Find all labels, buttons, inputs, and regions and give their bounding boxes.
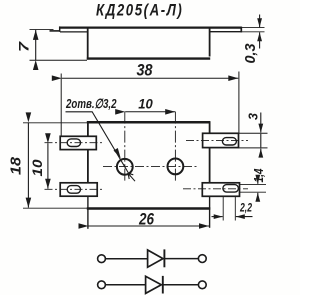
centerline hole right vertical / 10 extension xyxy=(174,112,176,183)
diode 2 wire left xyxy=(106,284,145,286)
diode 2 wire right xyxy=(163,284,199,286)
svg-text:26: 26 xyxy=(138,210,154,229)
side view: body left edge xyxy=(87,28,89,60)
centerline tab top-right xyxy=(186,139,248,141)
dimension 38 extension right xyxy=(238,72,240,134)
main view: plate bottom edge xyxy=(87,207,211,210)
dimension 1,4 upper arrow xyxy=(257,177,259,184)
dimension 2,2 extension left (slot left edge) xyxy=(222,197,224,221)
main view: plate right edge lower + 26 extension xyxy=(209,196,211,227)
dimension 10 left line xyxy=(47,143,49,189)
diode 2 right terminal circle xyxy=(198,281,206,289)
main view: plate left edge upper xyxy=(87,121,89,136)
dimension 18 extension bottom xyxy=(23,207,87,209)
side view: body bottom edge xyxy=(87,57,210,59)
diode 2 triangle anode xyxy=(146,276,162,293)
dimension 18 extension top xyxy=(23,122,87,124)
svg-text:0,3: 0,3 xyxy=(242,43,259,64)
dimension 7 top extension xyxy=(30,28,54,30)
dimension 0,3 upper arrow xyxy=(259,15,261,28)
svg-text:2отв.∅3,2: 2отв.∅3,2 xyxy=(65,96,117,111)
dimension 3 upper arrow xyxy=(260,113,262,133)
dimension 2,2 extension right (slot right edge) xyxy=(234,197,236,221)
diode 1 wire right xyxy=(164,258,198,260)
diode 1 wire left xyxy=(106,258,147,260)
side view: flange right end xyxy=(240,27,242,33)
diode 2 left terminal circle xyxy=(98,281,106,289)
dimension 3 extension top (tab top extended) xyxy=(239,132,268,134)
diode 1 right terminal circle xyxy=(198,255,206,263)
main view: plate top edge xyxy=(87,121,211,124)
slot in tab bottom-left xyxy=(67,186,80,194)
dimension 2,2 right arrow xyxy=(236,216,253,218)
centerline tab bottom-right xyxy=(183,188,248,190)
extension line 0,3 bottom xyxy=(242,31,265,33)
main view: plate left edge middle xyxy=(87,150,89,183)
side view: flange bottom left segment xyxy=(60,31,88,33)
leader end feathers xyxy=(128,173,135,181)
dimension 1,4 extension top (slot top extended) xyxy=(239,183,266,185)
side view: body right edge xyxy=(209,28,211,57)
diode 2 cathode bar xyxy=(162,276,164,294)
terminal tab top-right xyxy=(203,133,239,147)
side view: flange bottom right segment xyxy=(210,31,242,33)
dimension 2,2 left arrow xyxy=(212,216,223,218)
dimension 26 line xyxy=(89,225,210,227)
svg-text:7: 7 xyxy=(16,40,32,52)
slot in tab top-right xyxy=(222,138,236,145)
slot in tab bottom-right xyxy=(223,185,239,193)
svg-text:3: 3 xyxy=(247,113,261,120)
centerline tab bottom-left xyxy=(45,188,103,190)
dimension 38 line xyxy=(62,77,239,79)
main view: plate right edge middle xyxy=(209,148,211,183)
svg-text:КД205(А-Л): КД205(А-Л) xyxy=(96,1,182,20)
dimension 1,4 extension bottom (slot bottom extended) xyxy=(239,191,266,193)
dimension 10 top line xyxy=(125,111,175,113)
dimension 18 line xyxy=(27,122,29,207)
svg-text:10: 10 xyxy=(29,159,45,176)
extension line 0,3 top xyxy=(242,27,265,29)
side view: flange top edge xyxy=(59,26,242,28)
diode 1 triangle anode xyxy=(148,250,163,267)
side view: flange step xyxy=(59,26,61,31)
terminal tab bottom-left xyxy=(60,183,97,196)
svg-text:18: 18 xyxy=(9,156,25,175)
main view: plate left edge lower + 26 extension xyxy=(87,196,89,229)
terminal tab bottom-right xyxy=(202,183,239,197)
dimension 38 extension left xyxy=(60,74,62,137)
dimension 3 lower arrow xyxy=(260,149,262,156)
diode 1 left terminal circle xyxy=(98,255,106,263)
dimension 0,3 lower arrow xyxy=(259,32,261,48)
terminal tab top-left xyxy=(60,136,96,149)
main view: plate right edge upper xyxy=(209,121,211,133)
label underline xyxy=(66,111,93,113)
diode 1 cathode bar xyxy=(163,249,165,267)
hole left ⌀3,2 xyxy=(117,159,133,175)
leader line 2отв.⌀3,2 xyxy=(92,112,131,177)
slot in tab top-left xyxy=(67,139,80,147)
dimension 1,4 lower arrow xyxy=(257,193,259,201)
centerline holes horizontal xyxy=(103,166,198,168)
side view: flange tip left xyxy=(50,30,61,32)
dimension 3 connector xyxy=(260,134,262,148)
svg-text:1,4: 1,4 xyxy=(252,168,266,182)
svg-text:2,2: 2,2 xyxy=(239,203,252,215)
dimension 7 line with arrows xyxy=(35,30,37,60)
svg-text:38: 38 xyxy=(137,61,153,80)
dimension 7 bottom extension xyxy=(30,59,88,61)
centerline hole left vertical / 10 extension xyxy=(124,112,126,183)
hole right ⌀3,2 xyxy=(168,159,184,175)
leader arrowhead xyxy=(114,148,121,158)
dimension 3 extension bottom (tab bottom extended) xyxy=(239,147,268,149)
centerline tab top-left xyxy=(45,142,103,144)
svg-text:10: 10 xyxy=(138,96,153,112)
